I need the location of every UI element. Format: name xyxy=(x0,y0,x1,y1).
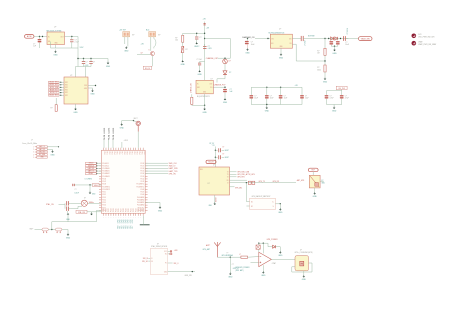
svg-text:3: 3 xyxy=(33,152,34,154)
svg-text:1M: 1M xyxy=(317,53,320,55)
svg-text:P0.6: P0.6 xyxy=(130,225,132,228)
svg-text:P0.3: P0.3 xyxy=(135,152,137,155)
svg-text:GND: GND xyxy=(202,112,207,114)
svg-text:GND_32K: GND_32K xyxy=(185,275,193,277)
svg-text:GPIO: GPIO xyxy=(117,219,119,223)
svg-text:SWDCLK: SWDCLK xyxy=(88,165,94,167)
svg-text:GND: GND xyxy=(332,53,337,55)
svg-text:C8: C8 xyxy=(213,145,215,147)
svg-text:P0.08: P0.08 xyxy=(102,184,106,186)
svg-text:C?: C? xyxy=(330,95,332,97)
svg-text:P0.09/NFC1: P0.09/NFC1 xyxy=(137,186,145,188)
svg-text:ANT_GPS: ANT_GPS xyxy=(297,179,304,182)
svg-text:+3V3: +3V3 xyxy=(124,140,128,142)
svg-text:GND: GND xyxy=(50,154,55,156)
svg-text:GND: GND xyxy=(261,275,266,277)
svg-text:EN1: EN1 xyxy=(197,87,200,89)
svg-text:C?: C? xyxy=(75,189,77,191)
svg-text:OPA?: OPA? xyxy=(272,262,276,265)
svg-text:4: 4 xyxy=(130,146,131,148)
svg-text:GND?: GND? xyxy=(225,150,229,152)
svg-text:UART_TX: UART_TX xyxy=(39,145,45,148)
svg-text:GND: GND xyxy=(124,51,129,53)
svg-text:C? 1uF: C? 1uF xyxy=(197,59,202,61)
svg-text:U?: U? xyxy=(213,165,215,167)
svg-text:9: 9 xyxy=(135,217,136,219)
svg-text:UART_TXD: UART_TXD xyxy=(169,170,179,173)
svg-text:GND: GND xyxy=(265,111,270,113)
svg-text:9: 9 xyxy=(130,217,131,219)
svg-text:GND: GND xyxy=(120,127,125,129)
svg-text:P0.4: P0.4 xyxy=(113,152,115,155)
svg-text:Conn_01x05_Male: Conn_01x05_Male xyxy=(22,143,37,145)
svg-text:X?: X? xyxy=(157,243,159,245)
svg-text:T?: T? xyxy=(227,252,229,254)
svg-text:4: 4 xyxy=(111,146,112,148)
svg-text:GND: GND xyxy=(278,212,283,214)
svg-text:4.7uF: 4.7uF xyxy=(345,98,349,100)
svg-text:RESET: RESET xyxy=(89,173,94,175)
svg-text:INT1: INT1 xyxy=(65,87,68,89)
svg-text:P0.25: P0.25 xyxy=(140,208,142,212)
svg-text:VBAT_PWR_SW_VBAT: VBAT_PWR_SW_VBAT xyxy=(418,43,436,46)
svg-text:P0.1: P0.1 xyxy=(130,152,132,155)
svg-text:D? SS14: D? SS14 xyxy=(347,28,349,34)
svg-text:P0.8: P0.8 xyxy=(123,152,125,155)
svg-text:P0.9: P0.9 xyxy=(125,152,127,155)
svg-text:P0.5: P0.5 xyxy=(128,225,130,228)
svg-text:4: 4 xyxy=(125,146,126,148)
svg-text:GND: GND xyxy=(332,111,337,113)
svg-text:INT1: INT1 xyxy=(65,82,68,84)
svg-text:C?: C? xyxy=(345,95,347,97)
svg-text:C?: C? xyxy=(254,95,256,97)
svg-text:C?: C? xyxy=(86,61,88,63)
svg-text:C?: C? xyxy=(232,264,234,266)
svg-text:P0.7: P0.7 xyxy=(120,152,122,155)
svg-text:GND: GND xyxy=(279,46,282,48)
svg-text:P0.07: P0.07 xyxy=(102,181,106,183)
svg-text:Batt: Batt xyxy=(146,28,150,31)
svg-text:GND: GND xyxy=(92,194,96,196)
svg-text:INT1: INT1 xyxy=(65,92,68,94)
svg-text:XTAL_32KHZ_EPSON: XTAL_32KHZ_EPSON xyxy=(151,245,168,248)
svg-text:BT_3V: BT_3V xyxy=(210,143,215,145)
svg-text:32K_O: 32K_O xyxy=(174,263,180,265)
svg-text:GPIO: GPIO xyxy=(128,219,130,223)
svg-text:P0.13: P0.13 xyxy=(102,197,106,199)
svg-text:9: 9 xyxy=(111,217,112,219)
svg-text:P0.16: P0.16 xyxy=(141,168,145,170)
svg-text:C?: C? xyxy=(199,37,201,39)
svg-text:P0.211: P0.211 xyxy=(104,135,106,140)
svg-text:MIC_ENB: MIC_ENB xyxy=(39,154,45,156)
svg-text:100nF: 100nF xyxy=(75,192,79,194)
svg-text:P0.25: P0.25 xyxy=(116,208,118,212)
svg-text:4: 4 xyxy=(128,146,129,148)
svg-text:D?: D? xyxy=(229,61,231,63)
svg-text:GPS_ANTENNA: GPS_ANTENNA xyxy=(222,254,233,257)
svg-text:GND: GND xyxy=(66,237,71,239)
svg-text:GND?: GND? xyxy=(225,157,229,159)
svg-text:GPIO: GPIO xyxy=(126,219,128,223)
svg-text:GPIO: GPIO xyxy=(132,219,134,223)
svg-text:TX: TX xyxy=(227,174,229,176)
svg-text:9: 9 xyxy=(121,217,122,219)
svg-text:CHARGE_OK?: CHARGE_OK? xyxy=(206,57,218,60)
svg-text:GPS_MIC: GPS_MIC xyxy=(235,188,243,190)
svg-text:P0.14: P0.14 xyxy=(102,199,106,201)
svg-text:+3V3: +3V3 xyxy=(208,48,212,50)
svg-text:MIC?: MIC? xyxy=(134,118,138,120)
svg-text:X?: X? xyxy=(84,198,86,200)
svg-text:GND: GND xyxy=(66,219,71,221)
svg-text:4: 4 xyxy=(106,146,107,148)
svg-text:+3V: +3V xyxy=(206,28,210,30)
svg-text:4: 4 xyxy=(140,146,141,148)
svg-text:C?: C? xyxy=(251,42,253,44)
svg-text:P0.2: P0.2 xyxy=(108,152,110,155)
svg-text:P0.22: P0.22 xyxy=(108,208,110,212)
svg-text:UART_RXD: UART_RXD xyxy=(169,167,179,170)
svg-text:P0.15: P0.15 xyxy=(141,171,145,173)
svg-text:10uF: 10uF xyxy=(254,98,258,100)
svg-text:P0.14: P0.14 xyxy=(141,173,145,175)
svg-text:4: 4 xyxy=(33,154,34,156)
svg-text:4: 4 xyxy=(118,146,119,148)
svg-text:L?: L? xyxy=(239,254,241,256)
svg-text:C?: C? xyxy=(345,42,347,44)
svg-text:E?: E? xyxy=(322,180,324,182)
svg-text:L? 10uH: L? 10uH xyxy=(304,40,306,46)
svg-text:9: 9 xyxy=(128,217,129,219)
svg-text:C?: C? xyxy=(270,95,272,97)
svg-text:VIN: VIN xyxy=(271,38,273,40)
svg-text:4: 4 xyxy=(121,146,122,148)
svg-text:P0.20: P0.20 xyxy=(128,208,130,212)
svg-text:GPS_TX: GPS_TX xyxy=(259,181,266,183)
svg-text:R?: R? xyxy=(51,108,53,110)
svg-text:9: 9 xyxy=(103,217,104,219)
svg-text:CHARGE_100: CHARGE_100 xyxy=(189,83,192,93)
svg-text:4.7uF: 4.7uF xyxy=(330,98,334,100)
svg-text:9: 9 xyxy=(140,217,141,219)
svg-text:GND: GND xyxy=(209,205,213,207)
svg-text:TX: TX xyxy=(227,176,229,178)
svg-text:ACCEL_CS: ACCEL_CS xyxy=(50,91,57,94)
svg-text:GND: GND xyxy=(53,55,58,57)
svg-text:GND: GND xyxy=(322,182,326,184)
svg-text:P0.07: P0.07 xyxy=(141,192,145,194)
svg-text:+3V 3V?: +3V 3V? xyxy=(119,29,126,31)
svg-text:4: 4 xyxy=(143,146,144,148)
svg-text:SW?: SW? xyxy=(30,228,34,230)
svg-text:2: 2 xyxy=(33,149,34,151)
svg-text:4: 4 xyxy=(116,146,117,148)
svg-text:XO: XO xyxy=(151,261,153,263)
svg-text:560k: 560k xyxy=(317,69,321,71)
svg-text:P0.3: P0.3 xyxy=(111,152,113,155)
svg-text:GPS_ANT: GPS_ANT xyxy=(203,248,210,251)
svg-text:P0.6: P0.6 xyxy=(118,152,120,155)
svg-text:GND: GND xyxy=(323,82,328,84)
svg-text:OUT: OUT xyxy=(209,83,212,85)
svg-text:10uF: 10uF xyxy=(305,98,309,100)
svg-text:INT1: INT1 xyxy=(65,84,68,86)
svg-text:P0.7: P0.7 xyxy=(132,225,134,228)
svg-text:MIC_ON: MIC_ON xyxy=(39,151,44,153)
svg-text:C?: C? xyxy=(222,154,224,156)
svg-text:U?: U? xyxy=(211,78,213,80)
svg-text:P0.18: P0.18 xyxy=(141,163,145,165)
svg-text:P0.211: P0.211 xyxy=(113,135,115,140)
svg-text:P0.4: P0.4 xyxy=(126,225,128,228)
svg-text:GPS_RTS: GPS_RTS xyxy=(237,177,244,179)
svg-text:B2: B2 xyxy=(251,206,253,208)
svg-text:TX: TX xyxy=(227,171,229,173)
svg-text:P0.10/NFC2: P0.10/NFC2 xyxy=(102,189,110,191)
svg-text:P0.06: P0.06 xyxy=(141,194,145,196)
svg-text:P0.16: P0.16 xyxy=(102,205,106,207)
svg-text:S: S xyxy=(149,49,150,51)
svg-text:9: 9 xyxy=(125,217,126,219)
svg-text:INT1: INT1 xyxy=(65,95,68,97)
svg-text:R?: R? xyxy=(317,67,319,69)
svg-text:CHARGER_ON: CHARGER_ON xyxy=(242,36,255,39)
svg-text:U?: U? xyxy=(279,29,281,31)
svg-text:GPIO: GPIO xyxy=(130,219,132,223)
svg-text:P0.0: P0.0 xyxy=(103,152,105,155)
svg-text:GND: GND xyxy=(164,271,167,273)
svg-text:GND: GND xyxy=(90,94,95,96)
svg-text:U?: U? xyxy=(54,27,56,29)
svg-text:GND: GND xyxy=(278,255,283,257)
svg-text:P0.4: P0.4 xyxy=(138,152,140,155)
svg-text:P0.22: P0.22 xyxy=(133,208,135,212)
svg-text:ACCEL_INT2: ACCEL_INT2 xyxy=(50,83,58,86)
svg-text:CHARGE_PG?: CHARGE_PG? xyxy=(214,84,226,87)
svg-text:PG: PG xyxy=(210,87,212,89)
svg-text:P0.0: P0.0 xyxy=(117,225,119,228)
svg-text:+3V3: +3V3 xyxy=(85,65,89,67)
svg-text:XTAL_ON: XTAL_ON xyxy=(46,203,54,206)
svg-text:P0.23: P0.23 xyxy=(111,208,113,212)
svg-text:INT1: INT1 xyxy=(65,90,68,92)
svg-text:GND: GND xyxy=(313,196,318,198)
svg-text:XL32K1: XL32K1 xyxy=(113,128,115,134)
svg-text:B1: B1 xyxy=(251,201,253,203)
svg-text:IN: IN xyxy=(48,36,50,38)
svg-text:XL32K1: XL32K1 xyxy=(104,128,106,134)
svg-text:9: 9 xyxy=(113,217,114,219)
svg-text:RESET: RESET xyxy=(215,197,217,202)
svg-text:+3V: +3V xyxy=(203,18,207,20)
svg-text:1: 1 xyxy=(33,147,34,149)
svg-text:ACCEL_SCL: ACCEL_SCL xyxy=(50,88,58,91)
svg-text:GPS_RX: GPS_RX xyxy=(273,181,280,183)
svg-text:GPIO: GPIO xyxy=(119,219,121,223)
svg-text:Q?: Q? xyxy=(141,53,143,55)
svg-text:BQ24232RGTR: BQ24232RGTR xyxy=(197,96,210,98)
svg-text:RX: RX xyxy=(227,180,229,182)
svg-text:EN: EN xyxy=(271,43,273,45)
svg-text:9: 9 xyxy=(108,217,109,219)
svg-text:ACCEL_SDO: ACCEL_SDO xyxy=(50,94,58,97)
svg-text:9: 9 xyxy=(118,217,119,219)
svg-text:GND: GND xyxy=(228,277,233,279)
svg-text:P0.24: P0.24 xyxy=(113,208,115,212)
svg-text:P0.5: P0.5 xyxy=(116,152,118,155)
svg-text:GND: GND xyxy=(158,210,163,212)
svg-text:ACCEL_INT1: ACCEL_INT1 xyxy=(50,81,58,84)
svg-text:P0.11: P0.11 xyxy=(102,192,106,194)
svg-text:4: 4 xyxy=(133,146,134,148)
svg-text:FO: FO xyxy=(165,263,167,265)
svg-text:P0.0: P0.0 xyxy=(128,152,130,155)
svg-text:GND: GND xyxy=(223,102,228,104)
svg-text:B?: B? xyxy=(158,35,160,37)
svg-text:GND: GND xyxy=(197,74,202,76)
svg-text:P0.15: P0.15 xyxy=(102,202,106,204)
svg-text:GND: GND xyxy=(302,279,307,281)
svg-text:C?_VREG: C?_VREG xyxy=(85,179,93,181)
svg-text:R?: R? xyxy=(317,50,319,52)
svg-text:P0.24: P0.24 xyxy=(138,208,140,212)
svg-text:P0.20: P0.20 xyxy=(103,208,105,212)
svg-text:C?: C? xyxy=(93,61,95,63)
svg-text:OUT: OUT xyxy=(60,36,63,38)
svg-text:AC30: AC30 xyxy=(27,35,32,38)
svg-text:U?: U? xyxy=(300,249,302,251)
svg-text:P0.3: P0.3 xyxy=(124,225,126,228)
svg-text:9: 9 xyxy=(123,217,124,219)
svg-text:GPS_POWER: GPS_POWER xyxy=(267,239,279,241)
svg-text:+3V8: +3V8 xyxy=(174,250,178,252)
svg-text:10uF: 10uF xyxy=(284,98,288,100)
svg-text:P0.00/XL1: P0.00/XL1 xyxy=(102,163,109,165)
svg-text:P0.23: P0.23 xyxy=(135,208,137,212)
svg-text:EN: EN xyxy=(48,41,50,43)
svg-text:9: 9 xyxy=(116,217,117,219)
svg-text:RG?: RG? xyxy=(311,170,315,172)
svg-text:P0.2: P0.2 xyxy=(122,225,124,228)
svg-text:P0.09/NFC1: P0.09/NFC1 xyxy=(102,186,110,188)
svg-text:XTAL_32K: XTAL_32K xyxy=(78,211,85,214)
svg-text:GND: GND xyxy=(203,92,206,94)
svg-text:P0.21: P0.21 xyxy=(106,208,108,212)
svg-text:5: 5 xyxy=(33,157,34,159)
svg-text:P0.13: P0.13 xyxy=(141,176,145,178)
svg-text:GND: GND xyxy=(279,57,284,59)
svg-text:C?: C? xyxy=(222,147,224,149)
svg-text:B?: B? xyxy=(186,49,188,51)
svg-text:10uF: 10uF xyxy=(270,98,274,100)
svg-text:P0.08: P0.08 xyxy=(141,189,145,191)
svg-text:P0.17: P0.17 xyxy=(141,165,145,167)
svg-text:VDD_PWR_SW_3V3: VDD_PWR_SW_3V3 xyxy=(418,37,434,39)
svg-text:+3V: +3V xyxy=(295,85,299,87)
svg-text:4: 4 xyxy=(135,146,136,148)
svg-text:BLE: BLE xyxy=(200,169,203,171)
svg-text:3.3V: 3.3V xyxy=(80,47,85,49)
svg-text:RG_10: RG_10 xyxy=(145,68,150,70)
svg-text:VCC: VCC xyxy=(164,251,167,253)
svg-text:IO: IO xyxy=(227,182,228,184)
svg-text:B?: B? xyxy=(132,35,134,37)
svg-text:P0.06: P0.06 xyxy=(102,178,106,180)
svg-text:10uF: 10uF xyxy=(251,44,255,46)
svg-text:P0.11: P0.11 xyxy=(141,181,145,183)
svg-text:P0.29: P0.29 xyxy=(125,208,127,212)
svg-text:GND?: GND? xyxy=(194,46,199,48)
svg-text:C?: C? xyxy=(284,95,286,97)
svg-text:4: 4 xyxy=(123,146,124,148)
svg-text:32K_XO: 32K_XO xyxy=(142,261,149,263)
svg-text:GPS_RXD_USB: GPS_RXD_USB xyxy=(237,172,249,174)
svg-text:IN: IN xyxy=(197,83,198,85)
svg-text:P0.26: P0.26 xyxy=(118,208,120,212)
svg-text:NCP/SW: NCP/SW xyxy=(308,36,315,38)
svg-text:NC: NC xyxy=(165,254,167,256)
svg-text:GPS+_CONSUMO(GPS): GPS+_CONSUMO(GPS) xyxy=(295,252,313,254)
svg-text:D?: D? xyxy=(229,72,231,74)
svg-text:C?: C? xyxy=(305,95,307,97)
svg-text:ANT?: ANT? xyxy=(206,244,210,247)
svg-text:VDD: VDD xyxy=(84,85,87,87)
svg-text:GPS/GPS_POWER: GPS/GPS_POWER xyxy=(235,267,250,269)
svg-text:VBAT_SW: VBAT_SW xyxy=(361,38,370,41)
svg-text:1uF: 1uF xyxy=(230,91,233,93)
svg-text:+3V: +3V xyxy=(141,43,145,45)
svg-text:9: 9 xyxy=(138,217,139,219)
svg-text:V+: V+ xyxy=(272,201,274,203)
svg-text:P0.6: P0.6 xyxy=(143,152,145,155)
svg-text:GND: GND xyxy=(245,52,250,54)
svg-text:RG_BT: RG_BT xyxy=(208,162,213,164)
svg-text:GPS_ON: GPS_ON xyxy=(169,173,177,175)
svg-text:P0.28: P0.28 xyxy=(123,208,125,212)
svg-text:GND: GND xyxy=(181,64,186,66)
svg-text:P0.2: P0.2 xyxy=(133,152,135,155)
svg-text:P0.12: P0.12 xyxy=(102,194,106,196)
svg-text:P0.01/XL2: P0.01/XL2 xyxy=(102,165,109,167)
svg-text:FB: FB xyxy=(290,43,292,45)
svg-text:J?: J? xyxy=(31,140,33,142)
svg-text:P0.21: P0.21 xyxy=(130,208,132,212)
svg-text:P0.10/NFC2: P0.10/NFC2 xyxy=(137,184,145,186)
svg-text:GPIO: GPIO xyxy=(124,219,126,223)
svg-text:P0.26: P0.26 xyxy=(143,208,145,212)
svg-text:U?: U? xyxy=(208,183,210,185)
svg-text:GPS_BACKUP_BATTERY: GPS_BACKUP_BATTERY xyxy=(252,195,272,198)
svg-text:10k: 10k xyxy=(175,40,178,42)
svg-text:1uF: 1uF xyxy=(33,46,36,48)
svg-text:P0.211: P0.211 xyxy=(108,135,110,140)
svg-text:XL32K1: XL32K1 xyxy=(108,128,110,134)
svg-text:10uF: 10uF xyxy=(345,44,349,46)
svg-text:P0.27: P0.27 xyxy=(120,208,122,212)
svg-text:GND: GND xyxy=(41,157,44,159)
svg-text:9: 9 xyxy=(133,217,134,219)
svg-text:9: 9 xyxy=(106,217,107,219)
svg-text:32K_XI: 32K_XI xyxy=(143,258,149,260)
svg-text:P0.5: P0.5 xyxy=(140,152,142,155)
svg-text:P0.12: P0.12 xyxy=(141,178,145,180)
svg-text:P0.1: P0.1 xyxy=(106,152,108,155)
svg-text:GND: GND xyxy=(106,66,111,68)
svg-text:GND: GND xyxy=(84,88,87,90)
svg-text:VREG: VREG xyxy=(94,185,98,187)
